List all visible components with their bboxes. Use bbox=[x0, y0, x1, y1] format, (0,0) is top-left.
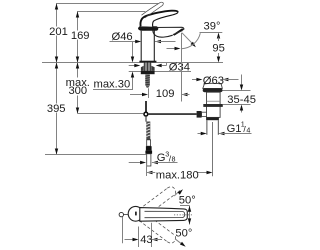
label G3/8 bbox=[157, 162, 178, 164]
svg-text:35-45: 35-45 bbox=[227, 94, 256, 106]
dashed lever rotated down bbox=[139, 221, 167, 242]
bottom view: dotted axis bbox=[174, 214, 193, 216]
svg-text:G: G bbox=[157, 152, 166, 164]
drain side knob bbox=[197, 111, 202, 118]
svg-text:109: 109 bbox=[156, 88, 175, 100]
svg-text:169: 169 bbox=[71, 30, 90, 42]
drain tailpipe bbox=[206, 120, 208, 135]
handle body white fill bbox=[140, 11, 177, 27]
hose top link bbox=[145, 117, 147, 122]
dimension 169 line bbox=[77, 12, 79, 31]
threaded rod bbox=[145, 74, 150, 85]
dimension D63 bbox=[192, 79, 197, 81]
drain bottom step bbox=[206, 117, 219, 120]
dimension D34 arrows bbox=[129, 65, 135, 67]
svg-text:201: 201 bbox=[49, 26, 68, 38]
bottom view: pivot dot bbox=[135, 212, 137, 216]
spout top edge bbox=[154, 27, 184, 29]
bottom view: handle pivot circle bbox=[128, 206, 143, 221]
dimension 395 line bbox=[56, 113, 58, 155]
raised lever outline bbox=[142, 2, 164, 18]
reference line (lever rest top) bbox=[77, 11, 145, 13]
pop-up rod vertical bbox=[145, 101, 147, 112]
39 degree angle: arc and arrow bbox=[167, 48, 176, 50]
mounting shank bbox=[144, 63, 152, 72]
drain body bbox=[207, 92, 221, 117]
50 degree top annotation bbox=[174, 190, 180, 196]
handle teardrop front tip bbox=[139, 27, 147, 30]
dimension 201 line bbox=[56, 4, 58, 27]
handle skirt bbox=[139, 26, 158, 31]
drain flange D63 bbox=[203, 88, 223, 92]
dimension max180 bbox=[146, 164, 148, 177]
svg-text:395: 395 bbox=[47, 103, 66, 115]
hose end tube bbox=[147, 154, 151, 166]
counter bottom line bbox=[129, 71, 191, 73]
spout aerator line bbox=[173, 31, 182, 35]
svg-text:4: 4 bbox=[246, 126, 250, 135]
dimension 43 bbox=[122, 217, 124, 243]
svg-text:Ø63: Ø63 bbox=[203, 75, 224, 87]
hose nut G3/8 bbox=[146, 146, 152, 150]
bottom view: blade inner lines bbox=[145, 211, 185, 217]
drain lock nut bbox=[203, 104, 223, 107]
bottom view: lever blade bbox=[140, 208, 188, 222]
svg-text:8: 8 bbox=[172, 155, 176, 164]
svg-text:39°: 39° bbox=[204, 20, 221, 32]
flexible hose braid bbox=[146, 122, 150, 140]
spout end face dark wedge bbox=[173, 28, 184, 35]
dimension max300 line bbox=[77, 96, 79, 114]
clamp wings bbox=[141, 66, 144, 71]
dimension 35-45 bbox=[223, 90, 251, 92]
dimension 95 bbox=[217, 33, 220, 39]
svg-text:Ø34: Ø34 bbox=[169, 61, 190, 73]
max300 bottom reference line bbox=[78, 113, 144, 115]
pop-up rod joint bbox=[143, 111, 148, 116]
faucet base plinth bbox=[139, 61, 156, 63]
svg-text:300: 300 bbox=[68, 85, 87, 97]
svg-text:50°: 50° bbox=[175, 227, 192, 239]
handle dome and blade top thick edge bbox=[140, 11, 177, 27]
dimension 109 bbox=[130, 94, 143, 96]
drain centerline bbox=[212, 122, 214, 176]
label G1 1/4 bbox=[225, 133, 252, 135]
counter top line bbox=[42, 62, 223, 64]
handle neck right edge bbox=[153, 21, 155, 27]
mounting nut bbox=[141, 71, 155, 74]
39 degree angle: diagonal bbox=[182, 33, 195, 46]
spout tip extension line bbox=[181, 33, 183, 102]
hose tube bbox=[147, 140, 151, 146]
faucet body column bbox=[140, 31, 142, 62]
spout bottom edge bbox=[153, 31, 173, 38]
svg-text:43: 43 bbox=[140, 234, 152, 246]
svg-text:max.30: max.30 bbox=[94, 78, 131, 90]
bottom view: front knob circle bbox=[119, 212, 123, 216]
dimension G1 1/4 bbox=[198, 133, 201, 135]
svg-text:G1: G1 bbox=[227, 123, 242, 135]
dimension G3/8 arrows bbox=[129, 162, 141, 164]
pop-up rod horizontal bbox=[149, 113, 197, 115]
39 degree reference line bbox=[200, 32, 223, 34]
top reference line (lever raised) bbox=[56, 3, 158, 5]
drain plug dome bbox=[203, 83, 223, 88]
drain body ring bbox=[207, 100, 221, 102]
handle blade bottom edge bbox=[154, 12, 178, 21]
hose end reference line bbox=[45, 154, 146, 156]
svg-text:max.180: max.180 bbox=[156, 169, 199, 181]
svg-text:95: 95 bbox=[212, 42, 224, 54]
dashed lever rotated up bbox=[139, 188, 167, 209]
svg-text:50°: 50° bbox=[179, 194, 196, 206]
